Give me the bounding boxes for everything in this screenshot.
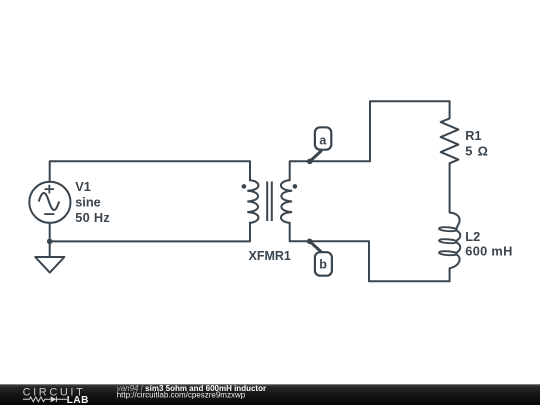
svg-text:sine: sine [75, 195, 101, 210]
transformer XFMR1 secondary winding [281, 180, 292, 223]
svg-text:b: b [319, 257, 327, 271]
node a bubble [315, 127, 331, 149]
wire L2 bottom to XFMR1 secondary bottom [290, 223, 450, 281]
node b pointer [310, 241, 322, 252]
svg-text:LAB: LAB [67, 395, 89, 405]
R1 labels [465, 128, 489, 159]
node a pointer [310, 150, 322, 161]
ground [35, 257, 64, 273]
wire V1 top to XFMR1 primary top [50, 161, 250, 181]
wire XFMR1 secondary top to node a to R1 top [290, 101, 450, 180]
wire R1 bottom to L2 top [449, 163, 451, 212]
logo diode triangle [51, 396, 57, 402]
transformer secondary phase dot [293, 184, 298, 189]
resistor R1 [441, 118, 459, 163]
svg-text:R1: R1 [465, 128, 481, 143]
svg-text:XFMR1: XFMR1 [249, 249, 291, 263]
L2 labels [465, 229, 512, 259]
svg-text:http://circuitlab.com/cpeszre9: http://circuitlab.com/cpeszre9mzxwp [117, 391, 246, 400]
wire ground stub [49, 241, 51, 257]
transformer core [267, 182, 272, 222]
node b junction dot [307, 239, 313, 245]
svg-text:V1: V1 [75, 179, 91, 194]
node a junction dot [307, 159, 313, 165]
svg-text:600 mH: 600 mH [465, 243, 512, 258]
svg-text:5 Ω: 5 Ω [465, 144, 489, 159]
junction dot V1/ground [47, 239, 53, 245]
transformer XFMR1 primary winding [247, 180, 258, 223]
node b bubble [315, 252, 332, 276]
svg-text:50 Hz: 50 Hz [75, 210, 110, 225]
inductor L2 [439, 213, 460, 269]
V1 labels [75, 179, 110, 225]
logo circuit line with resistor and diode [23, 397, 67, 403]
transformer primary phase dot [242, 184, 247, 189]
voltage source V1 [29, 182, 70, 223]
wire XFMR1 primary bottom to V1 bottom [50, 223, 250, 242]
svg-text:L2: L2 [465, 229, 480, 244]
svg-text:a: a [319, 134, 327, 148]
